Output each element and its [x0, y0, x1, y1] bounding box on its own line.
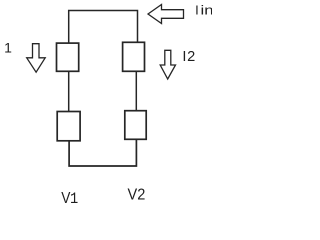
svg-text:1: 1 [4, 40, 12, 56]
svg-text:V1: V1 [61, 189, 78, 208]
svg-text:I2: I2 [182, 49, 196, 65]
svg-text:V2: V2 [128, 186, 146, 204]
svg-text:Iin: Iin [195, 3, 212, 18]
